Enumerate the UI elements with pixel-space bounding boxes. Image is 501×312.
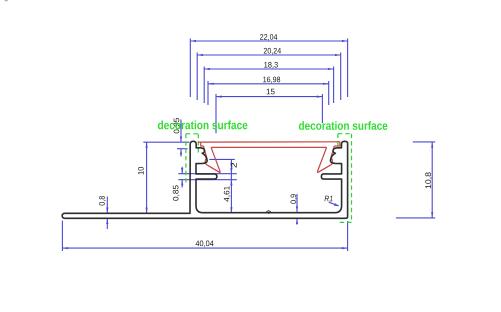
arrows 40,04 [62, 247, 68, 249]
arrows 10,8 [431, 142, 433, 148]
arrows 4,61 [230, 180, 232, 186]
label 0,8 (rotated) [99, 196, 106, 206]
arrows 2 [230, 159, 232, 165]
ext lines 15 [216, 94, 322, 133]
label 16,98 [263, 77, 280, 84]
label 10 (rotated) [138, 167, 144, 175]
arrows 0,9 [296, 206, 298, 212]
label 22,04 [260, 34, 277, 41]
decoration surface box right [337, 134, 351, 223]
label 20,24 [264, 48, 281, 55]
arrows 15 [216, 96, 222, 98]
dimension 20,24 line [197, 54, 341, 56]
label 18,3 [264, 62, 278, 69]
decoration surface label right [299, 121, 388, 130]
ext lines 40,04 [62, 221, 347, 251]
arrows 0,95 [180, 137, 182, 143]
label 15 [267, 89, 275, 95]
dimension 16,98 line [208, 83, 329, 85]
ext lines 20,24 [197, 53, 341, 101]
arrows 22,04 [190, 40, 196, 42]
dimension 0,8 line [106, 197, 108, 230]
red right barb [317, 146, 334, 172]
label 0,95 (rotated) [174, 118, 181, 133]
dimension 10,8 line [431, 142, 433, 218]
ext lines 0,85 [178, 174, 237, 180]
red left step [201, 142, 204, 146]
arrowheads [62, 40, 433, 249]
dimension 0,85 line [181, 167, 183, 188]
label 40,04 [196, 241, 214, 248]
arrows 18,3 [204, 68, 210, 70]
corner speck orange [5, 0, 7, 1]
arrows 20,24 [197, 54, 203, 56]
dimension 10 line [146, 142, 148, 213]
ext line 2 [209, 158, 235, 160]
decoration surface label left [158, 121, 248, 130]
dimension 22,04 line [190, 40, 347, 42]
arrows 10 [146, 142, 148, 148]
arrows 0,85 [181, 168, 183, 174]
arrows 0,8 [106, 208, 108, 214]
arrows 16,98 [208, 83, 214, 85]
ext lines 10,8 [396, 142, 435, 218]
dimension 2 and 4,61 line [230, 159, 232, 213]
ext line 10 top [143, 141, 189, 143]
ext lines 16,98 [208, 81, 329, 105]
arrow R1 leader [334, 203, 340, 206]
label 10,8 (rotated) [425, 172, 432, 188]
label 0,85 (rotated) [173, 185, 180, 200]
tick mark on channel bottom [267, 212, 271, 214]
dimension 0,95 line [180, 120, 182, 157]
label 2 (rotated) [231, 163, 237, 168]
ext line 0,95 [177, 148, 188, 150]
dimension 40,04 line [62, 247, 347, 249]
dimension 15 line [216, 96, 322, 98]
red inner surface line [211, 146, 327, 148]
red top surface line [198, 141, 340, 143]
profile outline [62, 141, 347, 218]
red right step [334, 142, 340, 146]
red left barb [203, 146, 220, 172]
ext lines 18,3 [204, 67, 333, 104]
dimension 18,3 line [204, 68, 333, 70]
label R1 [325, 196, 333, 202]
ext lines 22,04 [190, 39, 347, 98]
dimension 0,9 line [296, 194, 298, 225]
label 4,61 (rotated) [224, 186, 231, 201]
leader R1 [329, 202, 339, 206]
decoration surface box left [186, 134, 198, 183]
corner speck blue [6, 0, 7, 1]
label 0,9 (rotated) [291, 194, 298, 203]
